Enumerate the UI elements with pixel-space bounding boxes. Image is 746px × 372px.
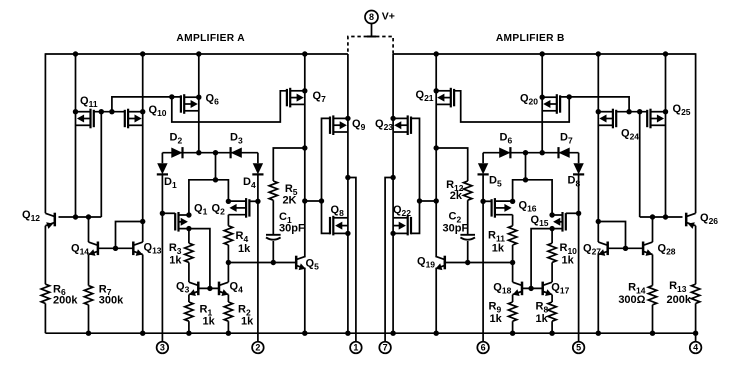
resistor R3	[185, 243, 193, 262]
svg-text:AMPLIFIER A: AMPLIFIER A	[176, 33, 245, 44]
wire Q21 drain branch	[436, 148, 468, 181]
node Q20 drain / diode row	[540, 150, 545, 155]
junction top rail / Q6	[196, 51, 201, 56]
svg-text:3: 3	[160, 343, 165, 353]
node Q10 drain / Q13 collector	[140, 219, 145, 224]
node Q25 source	[663, 109, 668, 114]
node Q14 collector tap	[86, 214, 91, 219]
wire diode row	[162, 152, 258, 154]
svg-text:7: 7	[383, 343, 388, 353]
junction top rail / Q24	[596, 51, 601, 56]
wire Q15 source to R10	[551, 229, 553, 244]
svg-text:30pF: 30pF	[279, 222, 305, 234]
node Q20 source	[540, 95, 545, 100]
node Q2 gate	[255, 199, 260, 204]
wire Q28-Q27 base link	[608, 247, 643, 249]
transistor Q26 (pnp)	[685, 213, 688, 227]
wire C1 to base net	[272, 241, 274, 263]
wire Q1 gate lead	[162, 212, 175, 214]
node gate feed	[319, 198, 324, 203]
svg-text:30pF: 30pF	[443, 223, 469, 235]
node Q24 drain / Q27 collector	[596, 219, 601, 224]
wire gate net to Q6	[112, 97, 181, 112]
resistor R14	[648, 286, 656, 305]
junction top rail / Q7	[302, 51, 307, 56]
svg-text:2K: 2K	[282, 194, 296, 206]
dashed V+ feed	[348, 37, 367, 55]
node base link tap	[113, 246, 118, 251]
node tail split	[213, 177, 218, 182]
wire Q24 leg	[597, 54, 599, 222]
wire base net	[228, 262, 296, 264]
node Q21 source	[434, 88, 439, 93]
node output tee (B)	[390, 175, 395, 180]
node pin 4 ground corner	[693, 331, 698, 336]
node C2 / base net	[465, 260, 470, 265]
wire R12 to C2	[467, 200, 469, 235]
node C1 / base net	[271, 260, 276, 265]
resistor R10	[548, 243, 556, 262]
wire R5 to C1	[272, 200, 274, 235]
node Q8 ground	[345, 331, 350, 336]
wire output jog to pin	[348, 178, 356, 342]
transistor Q7 (p-channel)	[289, 88, 291, 108]
wire left edge (V+ to Q12 collector)	[44, 53, 46, 213]
node Q13 ground	[140, 331, 145, 336]
node Q10 source	[140, 109, 145, 114]
wire Q21 leg	[435, 54, 437, 148]
transistor Q15 (p-channel)	[561, 212, 563, 232]
wire C2 to base net	[467, 241, 469, 263]
node Q27 ground	[596, 331, 601, 336]
wire Q11 leg	[75, 54, 77, 217]
node Q5 collector jumper	[302, 198, 307, 203]
wire base net (B)	[445, 262, 513, 264]
wire IN- column	[257, 174, 259, 341]
wire IN+ column top (B)	[578, 153, 580, 164]
node Q22 ground	[390, 331, 395, 336]
wire V+ top rail (amplifier A)	[45, 53, 348, 55]
wire R4 to node	[227, 245, 229, 263]
wire Q20 leg	[541, 54, 543, 153]
wire IN+ column (B)	[578, 174, 580, 341]
node Q1 source	[186, 226, 191, 231]
junction top rail / Q11	[73, 51, 78, 56]
junction top rail / Q10	[140, 51, 145, 56]
node Q19 collector jumper	[434, 198, 439, 203]
node Q3-Q4 base tap	[207, 286, 212, 291]
transistor Q12 (pnp)	[54, 213, 57, 227]
node Q11 drain / base line	[73, 214, 78, 219]
transistor Q10 (p-channel)	[127, 109, 129, 129]
wire Q16 gate lead	[483, 200, 492, 202]
wire tail to pair	[189, 180, 229, 215]
wire Q7 leg	[304, 54, 306, 148]
wire R6 to ground	[44, 303, 46, 333]
svg-text:1k: 1k	[492, 242, 505, 254]
node tail / diode row (B)	[523, 150, 528, 155]
wire R13 to ground	[695, 303, 697, 333]
node R9 ground	[510, 331, 515, 336]
junction top rail / Q21	[434, 51, 439, 56]
node R2 ground	[226, 331, 231, 336]
resistor R7	[84, 286, 92, 305]
node Q16 gate	[480, 199, 485, 204]
svg-text:1k: 1k	[238, 243, 251, 255]
node Q19 ground	[434, 331, 439, 336]
wire Q16 source to R11	[512, 215, 514, 226]
wire Q6 leg	[198, 54, 200, 153]
wire base link to Q27 collector	[598, 222, 625, 249]
resistor R13	[691, 284, 699, 303]
diode D1	[157, 163, 167, 174]
wire tail (B)	[525, 153, 527, 180]
node Q15 drain	[549, 212, 554, 217]
svg-text:1k: 1k	[490, 313, 503, 325]
wire Q3-Q4 base link	[198, 287, 219, 289]
capacitor C1	[266, 234, 281, 236]
node base link tap (B)	[623, 246, 628, 251]
node Q15 source	[549, 226, 554, 231]
wire IN+ column	[161, 174, 163, 341]
transistor Q11 (p-channel)	[89, 109, 91, 129]
wire R3 to Q3 collector	[188, 262, 190, 282]
svg-text:2: 2	[255, 343, 260, 353]
node Q11 source	[73, 109, 78, 114]
svg-text:V+: V+	[382, 11, 395, 23]
node R11 / Q19 base net	[510, 260, 515, 265]
transistor Q24 (p-channel)	[612, 109, 614, 129]
pin 3 IN+ A	[157, 342, 169, 354]
pin 8 V+ terminal	[365, 11, 378, 24]
diode D8	[573, 163, 583, 174]
transistor Q14 (npn)	[97, 242, 100, 256]
diode D4	[253, 163, 263, 174]
wire Q25 leg	[665, 54, 667, 217]
resistor R2	[224, 302, 232, 321]
wire Q13 collector	[142, 222, 144, 243]
transistor Q28 (npn)	[642, 242, 645, 256]
node Q15 gate	[576, 211, 581, 216]
wire V+ top rail (amplifier B)	[393, 53, 695, 55]
junction top rail / Q20	[540, 51, 545, 56]
node R14 ground	[650, 331, 655, 336]
transistor Q8 (n-channel)	[332, 216, 334, 236]
wire gate net to Q20	[560, 97, 629, 112]
wire Q28 emitter to R14	[652, 255, 654, 286]
wire Q13 emitter to ground	[142, 255, 144, 334]
node Q2 drain	[226, 199, 231, 204]
wire R11 to node	[512, 245, 514, 263]
wire node to Q4 collector	[227, 263, 229, 283]
wire gate feed column (B)	[411, 118, 420, 233]
node Q5 ground	[302, 331, 307, 336]
transistor Q16 (p-channel)	[494, 198, 496, 218]
wire IN- column top	[257, 153, 259, 164]
svg-text:200k: 200k	[53, 294, 78, 306]
node Q6 drain / diode row	[196, 150, 201, 155]
node gate net B	[637, 109, 642, 114]
pin 7 OUT B	[379, 342, 391, 354]
wire Q4 emitter to R2	[227, 295, 229, 302]
node gate net / Q6 tap	[169, 94, 174, 99]
wire gate feed column	[322, 118, 331, 233]
resistor R4	[224, 226, 232, 245]
wire ground bottom rail	[45, 332, 695, 334]
wire output rail	[347, 54, 349, 333]
node tail / diode row	[213, 150, 218, 155]
wire IN- column (B)	[482, 174, 484, 341]
pin 2 IN- A	[252, 342, 264, 354]
wire Q15 gate lead	[566, 212, 579, 214]
svg-text:1k: 1k	[203, 315, 216, 327]
wire R8 to ground	[551, 321, 553, 333]
resistor R8	[548, 302, 556, 321]
svg-text:2k: 2k	[450, 190, 463, 202]
transistor Q18 (npn)	[521, 282, 524, 296]
transistor Q1 (p-channel)	[177, 212, 179, 232]
node Q6 source	[196, 95, 201, 100]
resistor R6	[41, 284, 49, 303]
node output tee	[345, 175, 350, 180]
node R7 ground	[86, 331, 91, 336]
wire Q26 base line	[640, 216, 683, 218]
wire right edge (V+ to Q26 collector)	[695, 53, 697, 213]
node Q24 source	[596, 109, 601, 114]
transistor Q3 (npn)	[197, 282, 200, 296]
transistor Q17 (npn)	[541, 282, 544, 296]
node gate net A riser	[109, 109, 114, 114]
wire gate net to Q7	[172, 91, 287, 122]
wire jumper to gates (B)	[420, 200, 437, 202]
wire tail	[215, 153, 217, 180]
capacitor C2	[460, 234, 475, 236]
wire Q7 drain branch	[273, 148, 305, 181]
wire Q27 collector	[597, 222, 599, 243]
node Q22 source	[390, 231, 395, 236]
node gate net / Q20 tap	[567, 94, 572, 99]
junction top rail / Q25	[663, 51, 668, 56]
resistor R9	[508, 302, 516, 321]
svg-text:1: 1	[353, 343, 358, 353]
wire base link to Q13 collector	[116, 222, 143, 249]
wire Q14-Q13 base link	[98, 247, 133, 249]
transistor Q9 (p-channel)	[332, 115, 334, 135]
wire Q26 emitter to R13	[695, 226, 697, 285]
node Q16 drain	[510, 199, 515, 204]
transistor Q25 (p-channel)	[649, 109, 651, 129]
diode D6	[499, 148, 510, 158]
svg-text:1k: 1k	[562, 255, 575, 267]
wire Q2 source to R4	[227, 215, 229, 226]
node R1 ground	[186, 331, 191, 336]
wire Q1 source to R3	[188, 229, 190, 244]
wire R14 to ground	[652, 305, 654, 333]
transistor Q22 (n-channel)	[407, 216, 409, 236]
transistor Q21 (p-channel)	[450, 88, 452, 108]
wire R7 to ground	[88, 305, 90, 333]
wire tail to pair (B)	[513, 180, 553, 215]
transistor Q5 (npn)	[295, 256, 298, 270]
wire gate net to Q21	[454, 91, 569, 122]
node Q25 drain / base line	[663, 214, 668, 219]
transistor Q27 (npn)	[606, 242, 609, 256]
wire Q24-Q25 gate link	[616, 111, 647, 113]
transistor Q20 (p-channel)	[556, 94, 558, 114]
wire IN- column top (B)	[482, 153, 484, 164]
node Q18-Q17 base tap	[528, 286, 533, 291]
wire Q19 emitter to ground	[435, 269, 437, 334]
wire node to Q18 collector	[512, 263, 514, 283]
svg-text:300k: 300k	[99, 294, 124, 306]
wire Q15 source to bases	[531, 229, 552, 289]
wire R9 to ground	[512, 321, 514, 333]
transistor Q6 (p-channel)	[183, 94, 185, 114]
pin 6 IN- B	[477, 342, 489, 354]
node Q1 drain	[186, 212, 191, 217]
svg-text:5: 5	[576, 343, 581, 353]
wire IN+ column top	[161, 153, 163, 164]
node gate feed (B)	[417, 198, 422, 203]
resistor R5	[269, 181, 277, 200]
node Q7 drain	[302, 145, 307, 150]
diode D2	[171, 148, 182, 158]
transistor Q13 (npn)	[132, 242, 135, 256]
pin 4 GND	[690, 342, 702, 354]
svg-text:200k: 200k	[667, 294, 692, 306]
svg-text:6: 6	[481, 343, 486, 353]
diode D5	[478, 163, 488, 174]
wire Q18 emitter to R9	[512, 295, 514, 302]
wire Q1 source to bases	[189, 229, 210, 289]
node Q23 source	[390, 116, 395, 121]
node Q7 source	[302, 88, 307, 93]
node R8 ground	[549, 331, 554, 336]
wire R10 to Q17 collector	[551, 262, 553, 282]
node Q28 collector tap	[650, 214, 655, 219]
svg-text:AMPLIFIER B: AMPLIFIER B	[496, 33, 565, 44]
wire jumper to gates	[305, 200, 322, 202]
resistor R12	[464, 181, 472, 200]
node tail split (B)	[523, 177, 528, 182]
wire Q12 emitter to R6	[44, 226, 46, 285]
diode D7	[559, 148, 570, 158]
svg-text:1k: 1k	[169, 255, 182, 267]
wire Q3 emitter to R1	[188, 295, 190, 302]
pin 1 OUT A	[350, 342, 362, 354]
node R4 / Q5 base net	[226, 260, 231, 265]
wire gate net down to bias	[100, 112, 102, 217]
transistor Q2 (p-channel)	[245, 198, 247, 218]
wire Q19 collector	[435, 148, 437, 256]
wire output jog to pin (B)	[385, 178, 393, 342]
node gate net B riser	[626, 109, 631, 114]
wire Q14 collector	[88, 217, 90, 242]
pin 5 IN+ B	[573, 342, 585, 354]
wire Q12 base line	[59, 216, 102, 218]
node Q9 source	[345, 116, 350, 121]
diode D3	[231, 148, 242, 158]
wire Q17 emitter to R8	[551, 295, 553, 302]
wire Q14 emitter to R7	[88, 255, 90, 286]
node Q21 drain	[434, 145, 439, 150]
wire Q18-Q17 base link	[522, 287, 543, 289]
wire Q5 emitter to ground	[304, 269, 306, 334]
transistor Q19 (npn)	[444, 256, 447, 270]
transistor Q23 (p-channel)	[407, 115, 409, 135]
svg-text:4: 4	[693, 343, 698, 353]
svg-text:8: 8	[369, 12, 374, 22]
wire Q28 collector	[652, 217, 654, 242]
resistor R1	[185, 302, 193, 321]
wire R2 to ground	[227, 321, 229, 333]
wire R1 to ground	[188, 321, 190, 333]
transistor Q4 (npn)	[218, 282, 221, 296]
wire Q27 emitter to ground	[597, 255, 599, 334]
node Q8 source	[345, 231, 350, 236]
wire Q5 collector	[304, 148, 306, 256]
svg-text:1k: 1k	[241, 315, 254, 327]
svg-text:1k: 1k	[536, 313, 549, 325]
node Q1 gate	[160, 211, 165, 216]
wire diode row (B)	[483, 152, 578, 154]
wire Q10 leg	[142, 54, 144, 222]
wire output rail (B)	[392, 54, 394, 333]
svg-text:300Ω: 300Ω	[618, 294, 645, 306]
wire Q11-Q10 gate link	[94, 111, 125, 113]
resistor R11	[508, 226, 516, 245]
wire Q2 gate lead	[249, 200, 258, 202]
node gate net A	[99, 109, 104, 114]
wire gate net down to bias (B)	[639, 112, 641, 217]
